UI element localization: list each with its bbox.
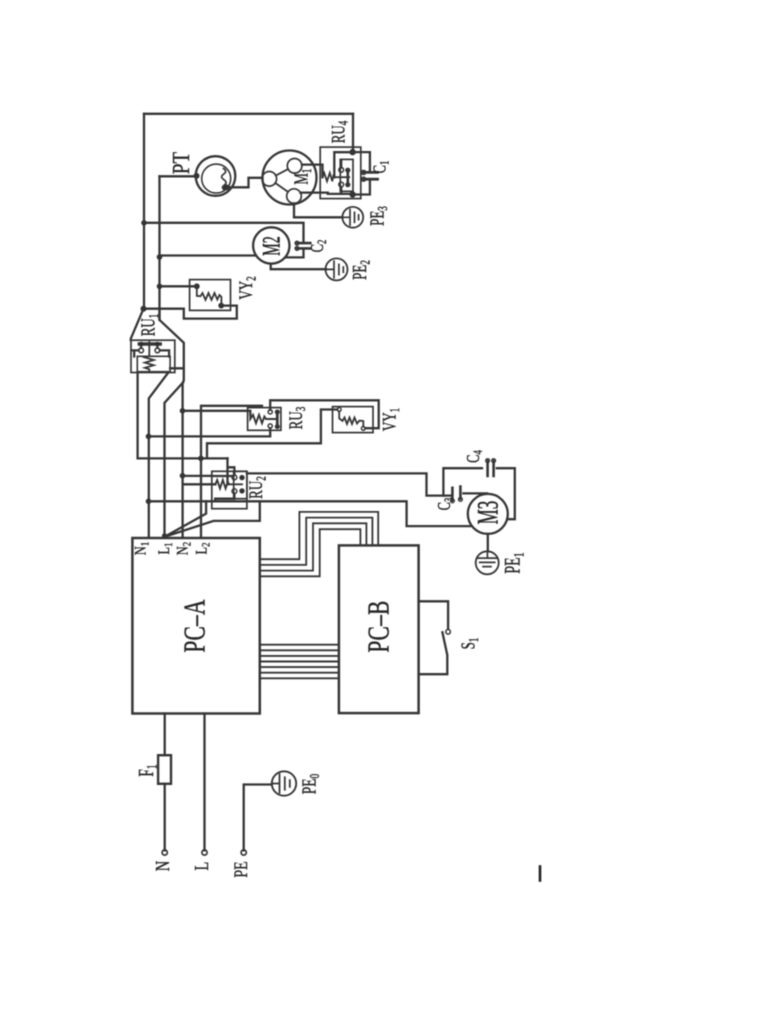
RU4 thermal protector box [320,147,361,199]
RU3 contact circles [268,410,272,414]
wire top rail [144,113,353,115]
RU3 contact bar [276,412,279,428]
svg-text:L: L [191,862,213,871]
PC-A to PC-B bundle wire 2 [260,518,373,565]
svg-text:F1: F1 [134,764,160,776]
svg-text:C2: C2 [308,240,330,253]
svg-text:L2: L2 [193,542,213,554]
RU1 overload protector box [131,340,175,372]
svg-text:RU4: RU4 [328,120,351,143]
lower ribbon bus wires [260,645,339,679]
wire RU3 bottom return [149,428,271,436]
node junction dots group 1 [141,149,356,312]
RU4 contact circle upper [339,168,344,173]
svg-text:PE0: PE0 [298,774,323,794]
wire long lower feeder to M3 [149,501,472,526]
capacitor C1 plates [364,172,378,179]
svg-text:N1: N1 [132,542,152,555]
RU1 resistor bottom exit [170,367,184,369]
wire to RU3 resistor [183,411,251,415]
PT motor [196,156,236,196]
RU4 contact stubs [340,160,342,167]
PC-A to PC-B bundle wire 3 [260,523,367,570]
svg-text:N: N [152,860,174,871]
svg-text:C1: C1 [370,161,392,174]
M1 internal spokes [275,169,288,192]
wire mid feeder to C3/C4 [183,473,451,495]
VY2 varistor box [190,280,231,311]
svg-text:PE3: PE3 [366,206,391,226]
RU4 contact bar [346,170,349,185]
ground PE2 [326,258,348,280]
fuse F1 [158,755,171,784]
svg-text:PC–A: PC–A [176,599,211,653]
RU1 funnel left [131,309,144,341]
RU3 contact end dots [275,410,280,430]
VY2 left terminal dot [194,283,224,308]
resistor RU4 zigzag [323,173,350,181]
wire C4 right lead down to M3 [497,468,515,519]
wire PT left lead [160,175,197,177]
motor M3 [468,494,508,534]
VY1 contact circles [337,408,341,412]
svg-text:PE1: PE1 [501,552,527,573]
RU4 contact circle lower [339,182,344,187]
resistor RU1 zigzag vertical [145,342,154,372]
wire RU2 resistor left lead [183,483,215,485]
svg-text:RU3: RU3 [286,406,309,429]
wire M1 bottom terminal to PE3 [294,203,342,217]
svg-text:M3: M3 [472,501,505,525]
wire M2 bottom to PE2 [271,264,326,270]
PC-A to PC-B bundle wire 4 [260,529,361,576]
RU1 funnel right / N2 riser [160,309,184,538]
resistor RU3 zigzag [250,415,277,424]
ground PE3 [342,207,363,228]
capacitor C2 plates [297,243,310,248]
text labels (rotated, tall engineering lettering) [132,120,527,877]
wire C1 parallel loop [353,152,370,194]
VY1 varistor box [333,407,374,433]
RU1 contact bar [139,342,160,345]
node junction dots group 2 [146,408,204,538]
svg-text:VY1: VY1 [379,408,402,431]
svg-text:M1: M1 [290,169,315,185]
svg-text:PC–B: PC–B [360,600,395,652]
RU1 contact circles [139,348,144,353]
wire L1 to M3 feeder diagonal [165,502,260,537]
svg-text:M2: M2 [258,236,285,255]
svg-text:PE2: PE2 [349,260,374,280]
svg-text:VY2: VY2 [236,276,259,300]
wire M2 left lead [160,254,257,256]
terminal L [202,850,207,855]
wire C2 to M2 lower right [286,250,304,258]
svg-text:C3: C3 [435,497,457,510]
svg-text:S1: S1 [457,637,482,649]
wire M1 top terminal to RU4 resistor [302,165,323,178]
RU1 inner sub-box [137,356,170,371]
RU4 inner loop and resistor lead [334,152,352,177]
ground PE1 [476,551,499,574]
wire RU1 bottom-left to N1 [149,373,169,538]
wire C4 branch riser [443,468,482,495]
RU2 protector box [212,471,247,508]
wire L1 to L2 diagonal [165,501,207,537]
wire PC-A to N terminal with fuse [164,714,166,851]
RU2 entry branches [228,458,235,484]
RU4 contact dots [345,168,350,188]
svg-text:PT: PT [168,152,195,174]
ground PE0 [272,771,296,795]
wire branch to L1 [165,383,184,538]
wire C3 right lead [463,492,487,494]
RU4 switch sub-box [340,159,353,191]
wire VY2 return to bus A [144,306,237,319]
RU2 feeder inside [212,475,232,477]
svg-text:C4: C4 [464,450,486,463]
wire L2 riser and RU3 top feeder [201,406,262,538]
resistor RU2 zigzag [215,480,242,489]
capacitor C3 plates [452,487,460,501]
wire M3 to PE1 [487,534,489,552]
RU2 contact circles [232,475,237,480]
switch S1 [419,601,449,628]
wire left vertical bus A [143,114,145,309]
wire right drop to RU4 [352,114,354,152]
motor M1 [263,151,317,205]
wire PE terminal to PE0 [244,785,272,851]
wire RU1 switch feeder [138,373,228,459]
svg-text:L1: L1 [156,542,176,554]
PC-B display board box [339,545,419,713]
resistor VY1 zigzag [339,411,363,426]
terminal N [162,850,167,855]
wire M1 bottom terminal to RU4 hook [300,191,327,193]
resistor VY2 zigzag [197,286,222,305]
wire M2/C2 feeder from bus A [144,223,304,242]
motor M2 [253,227,289,263]
svg-text:N2: N2 [174,542,194,555]
page mark [539,867,542,881]
terminal PE [241,850,246,855]
RU2 contact dots [239,475,244,494]
wire VY1 top feeder [207,410,337,459]
RU2 switch sub-box [234,471,247,498]
capacitor C4 plates [488,461,494,476]
RU2 bottom contact exit [215,494,234,502]
wire RU3 to VY1 lower link [270,400,379,428]
RU4 bottom hook [328,187,353,194]
wire PT to M1 link [226,178,262,188]
RU1 contact leads [132,346,170,357]
wire PC-A to L terminal [203,714,205,851]
PC-A to PC-B bundle wire 1 [260,512,378,559]
PC-A control board box [132,538,259,714]
wire left vertical bus B [158,176,160,320]
wire VY2 left lead [160,285,195,287]
svg-text:PE: PE [230,861,252,877]
svg-text:RU2: RU2 [246,476,269,499]
RU3 box [248,408,281,431]
